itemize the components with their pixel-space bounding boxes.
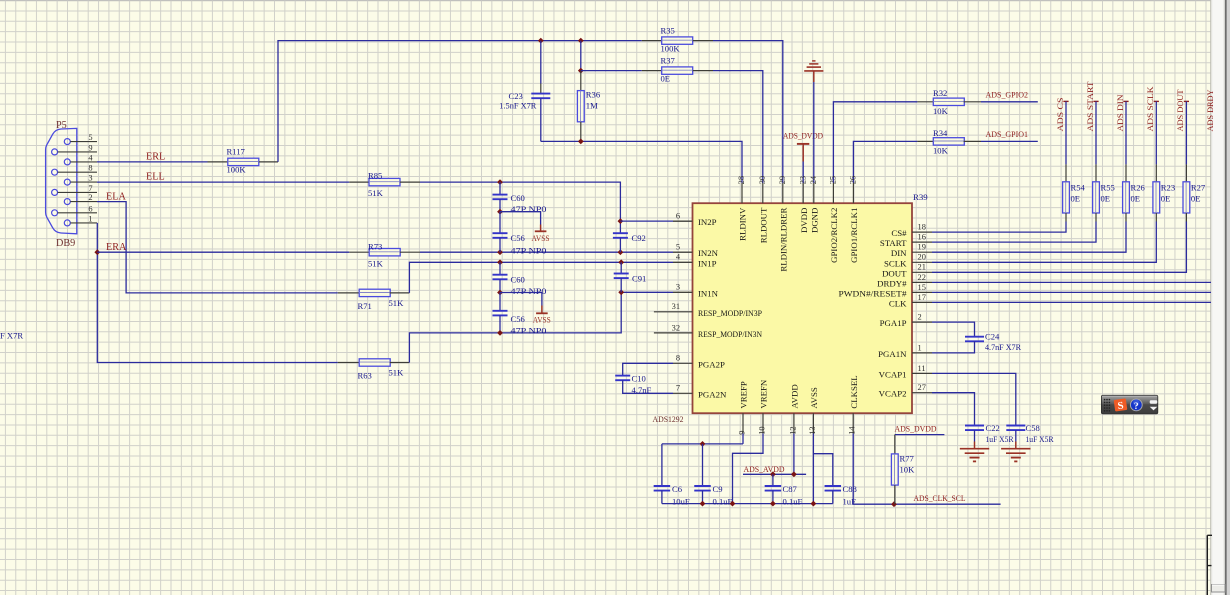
svg-text:AVSS: AVSS	[809, 387, 819, 408]
svg-text:1uF X5R: 1uF X5R	[1026, 434, 1054, 444]
svg-text:RESP_MODP/IN3N: RESP_MODP/IN3N	[698, 329, 763, 339]
svg-text:R26: R26	[1131, 182, 1146, 192]
svg-text:17: 17	[918, 293, 926, 302]
svg-text:IN1N: IN1N	[698, 288, 719, 298]
svg-text:0E: 0E	[1131, 193, 1141, 203]
svg-text:F X7R: F X7R	[0, 331, 23, 341]
svg-text:5: 5	[88, 133, 92, 142]
svg-text:4.7nF X7R: 4.7nF X7R	[985, 342, 1021, 352]
svg-text:C56: C56	[511, 314, 526, 324]
svg-text:ADS CS: ADS CS	[1055, 97, 1065, 131]
svg-text:0E: 0E	[1101, 193, 1111, 203]
svg-text:26: 26	[849, 176, 858, 184]
svg-text:51K: 51K	[389, 298, 405, 308]
svg-text:RLDINV: RLDINV	[738, 207, 748, 241]
svg-text:C58: C58	[1026, 423, 1040, 433]
svg-text:2: 2	[918, 313, 922, 322]
svg-text:PGA1P: PGA1P	[880, 318, 907, 328]
svg-text:SCLK: SCLK	[884, 258, 907, 268]
svg-text:12: 12	[788, 426, 797, 434]
svg-text:VREFN: VREFN	[759, 379, 769, 408]
svg-text:0E: 0E	[1161, 193, 1171, 203]
svg-text:ADS_DVDD: ADS_DVDD	[895, 424, 937, 434]
svg-text:IN1P: IN1P	[698, 258, 717, 268]
svg-text:23: 23	[798, 176, 807, 184]
svg-text:R32: R32	[933, 88, 947, 98]
svg-text:AVSS: AVSS	[532, 233, 550, 243]
svg-text:?: ?	[1134, 402, 1139, 412]
svg-text:ELL: ELL	[146, 172, 165, 183]
svg-text:AVSS: AVSS	[533, 315, 551, 325]
svg-text:C10: C10	[632, 374, 646, 384]
svg-text:21: 21	[918, 263, 926, 272]
svg-text:51K: 51K	[368, 188, 384, 198]
svg-text:DRDY#: DRDY#	[877, 278, 907, 288]
svg-text:47P NP0: 47P NP0	[511, 326, 547, 336]
svg-text:10uF: 10uF	[672, 497, 690, 507]
svg-text:9: 9	[737, 431, 746, 435]
svg-text:ADS1292: ADS1292	[653, 414, 684, 424]
svg-text:1: 1	[918, 343, 922, 352]
svg-text:AVDD: AVDD	[790, 384, 800, 408]
svg-text:32: 32	[672, 323, 680, 332]
svg-text:1uF: 1uF	[843, 497, 857, 507]
svg-text:CLK: CLK	[889, 298, 907, 308]
svg-text:8: 8	[88, 164, 92, 173]
svg-text:ELA: ELA	[106, 192, 126, 203]
svg-text:DB9: DB9	[56, 238, 75, 249]
svg-text:10K: 10K	[900, 464, 916, 474]
svg-text:CLKSEL: CLKSEL	[849, 375, 859, 408]
svg-text:C24: C24	[985, 332, 1000, 342]
svg-text:START: START	[880, 238, 907, 248]
svg-text:R85: R85	[368, 171, 382, 181]
svg-text:R23: R23	[1161, 182, 1175, 192]
svg-text:RESP_MODP/IN3P: RESP_MODP/IN3P	[698, 308, 762, 318]
svg-text:47P NP0: 47P NP0	[511, 286, 547, 296]
svg-text:IN2P: IN2P	[698, 217, 717, 227]
svg-text:PGA2P: PGA2P	[698, 359, 725, 369]
svg-text:R27: R27	[1191, 182, 1206, 192]
svg-text:29: 29	[778, 176, 787, 184]
svg-text:3: 3	[88, 174, 92, 183]
svg-text:C6: C6	[672, 484, 683, 494]
svg-text:C92: C92	[632, 233, 646, 243]
svg-text:ADS_AVDD: ADS_AVDD	[744, 464, 785, 474]
svg-text:8: 8	[676, 354, 680, 363]
svg-text:R55: R55	[1101, 182, 1115, 192]
svg-text:DOUT: DOUT	[882, 268, 907, 278]
svg-text:CS#: CS#	[891, 228, 907, 238]
svg-text:22: 22	[918, 273, 926, 282]
svg-text:1.5nF X7R: 1.5nF X7R	[499, 101, 536, 111]
svg-text:R63: R63	[358, 371, 372, 381]
svg-text:ADS_DVDD: ADS_DVDD	[783, 131, 823, 141]
svg-text:R34: R34	[933, 128, 948, 138]
svg-text:2: 2	[88, 193, 92, 202]
svg-text:ADS SCLK: ADS SCLK	[1145, 86, 1155, 132]
svg-text:C88: C88	[843, 484, 857, 494]
svg-text:11: 11	[918, 364, 926, 373]
svg-text:13: 13	[808, 426, 817, 434]
svg-text:10K: 10K	[933, 106, 949, 116]
svg-text:19: 19	[918, 243, 926, 252]
svg-text:PGA2N: PGA2N	[698, 389, 727, 399]
svg-text:IN2N: IN2N	[698, 248, 719, 258]
svg-text:RLDIN/RLDRER: RLDIN/RLDRER	[778, 207, 788, 271]
svg-text:VCAP1: VCAP1	[879, 369, 907, 379]
svg-text:R117: R117	[227, 147, 246, 157]
svg-text:51K: 51K	[389, 368, 405, 378]
svg-text:ADS DRDY: ADS DRDY	[1205, 89, 1215, 132]
svg-text:100K: 100K	[661, 44, 681, 54]
svg-text:25: 25	[829, 176, 838, 184]
svg-text:DGND: DGND	[809, 208, 819, 233]
svg-text:20: 20	[918, 253, 926, 262]
svg-text:VCAP2: VCAP2	[879, 389, 907, 399]
svg-text:DVDD: DVDD	[799, 208, 809, 233]
svg-text:C91: C91	[632, 274, 646, 284]
svg-text:R36: R36	[586, 90, 601, 100]
svg-text:C22: C22	[986, 423, 1000, 433]
svg-text:RLDOUT: RLDOUT	[758, 207, 768, 243]
svg-text:0E: 0E	[661, 74, 671, 84]
svg-text:ERL: ERL	[146, 152, 165, 163]
svg-text:P5: P5	[56, 120, 67, 131]
svg-text:30: 30	[758, 176, 767, 184]
svg-text:R77: R77	[900, 453, 915, 463]
svg-text:C9: C9	[713, 484, 723, 494]
svg-text:ADS DIN: ADS DIN	[1115, 94, 1125, 132]
svg-text:28: 28	[737, 176, 746, 184]
svg-text:5: 5	[676, 243, 680, 252]
svg-text:51K: 51K	[368, 259, 384, 269]
svg-text:ERA: ERA	[106, 242, 127, 253]
svg-text:24: 24	[809, 175, 818, 184]
svg-text:1uF X5R: 1uF X5R	[986, 434, 1014, 444]
svg-text:ADS_GPIO1: ADS_GPIO1	[986, 129, 1029, 139]
svg-text:1M: 1M	[586, 101, 598, 111]
svg-text:PGA1N: PGA1N	[878, 349, 907, 359]
svg-text:31: 31	[672, 302, 680, 311]
svg-text:GPIO2/RCLK2: GPIO2/RCLK2	[829, 208, 839, 263]
svg-text:16: 16	[918, 233, 926, 242]
svg-text:10K: 10K	[933, 146, 949, 156]
svg-text:R71: R71	[358, 301, 372, 311]
svg-text:GPIO1/RCLK1: GPIO1/RCLK1	[849, 208, 859, 263]
svg-text:47P NP0: 47P NP0	[511, 246, 547, 256]
svg-text:C87: C87	[783, 484, 798, 494]
svg-text:ADS DOUT: ADS DOUT	[1175, 89, 1185, 132]
svg-text:10: 10	[757, 426, 766, 434]
svg-text:3: 3	[676, 283, 680, 292]
svg-text:ADS_CLK_SCL: ADS_CLK_SCL	[914, 493, 966, 503]
svg-text:6: 6	[88, 204, 92, 213]
svg-text:ADS START: ADS START	[1085, 81, 1095, 132]
svg-text:DIN: DIN	[891, 248, 907, 258]
svg-text:6: 6	[676, 212, 680, 221]
svg-text:1: 1	[88, 214, 92, 223]
svg-text:R73: R73	[368, 242, 382, 252]
svg-text:ADS_GPIO2: ADS_GPIO2	[986, 90, 1029, 100]
svg-text:7: 7	[88, 184, 92, 193]
svg-text:C60: C60	[511, 275, 525, 285]
svg-text:27: 27	[918, 383, 926, 392]
svg-text:9: 9	[88, 143, 92, 152]
svg-text:7: 7	[676, 384, 680, 393]
svg-text:18: 18	[918, 223, 926, 232]
svg-text:15: 15	[918, 283, 926, 292]
svg-text:R54: R54	[1071, 182, 1086, 192]
svg-text:R37: R37	[661, 56, 676, 66]
svg-text:0.1uF: 0.1uF	[783, 497, 803, 507]
svg-text:0.1uF: 0.1uF	[713, 497, 733, 507]
svg-text:C23: C23	[509, 91, 523, 101]
svg-text:C60: C60	[511, 193, 525, 203]
svg-text:R39: R39	[913, 192, 928, 202]
svg-text:0E: 0E	[1191, 193, 1201, 203]
svg-text:14: 14	[848, 426, 857, 435]
svg-text:0E: 0E	[1071, 193, 1081, 203]
svg-text:R35: R35	[661, 26, 675, 36]
svg-text:PWDN#/RESET#: PWDN#/RESET#	[839, 288, 908, 298]
svg-text:VREFP: VREFP	[739, 381, 749, 408]
svg-text:100K: 100K	[227, 165, 247, 175]
svg-text:C56: C56	[511, 233, 526, 243]
